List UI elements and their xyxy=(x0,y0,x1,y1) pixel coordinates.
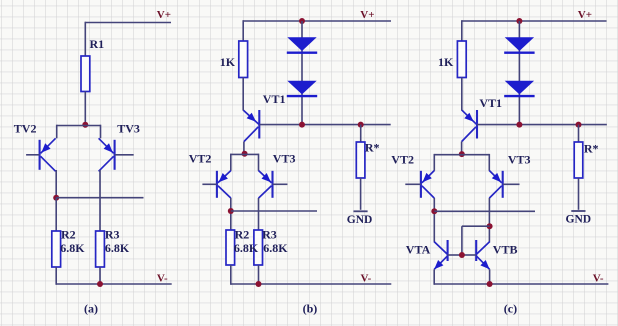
wire pair top horizontal (c) xyxy=(434,154,489,156)
transistor VT1 (b) collector xyxy=(244,127,258,142)
diode D2 (b) xyxy=(287,81,316,95)
transistor VT1 (c) emitter arrow (PNP) xyxy=(464,113,473,122)
transistor VTB base lead xyxy=(462,254,476,256)
transistor TV3 base lead xyxy=(115,154,134,156)
svg-text:GND: GND xyxy=(566,214,592,226)
wire TV2 emitter vertical xyxy=(56,125,58,139)
node: TV2 collector to output wire xyxy=(53,195,59,201)
wire R2 bottom to V- rail xyxy=(55,267,57,285)
transistor VT3c emitter arrow (PNP) xyxy=(492,173,501,182)
node: VT1 collector to pair (c) xyxy=(459,151,465,157)
resistor R3 xyxy=(96,231,105,267)
transistor TV2 base lead xyxy=(26,154,39,156)
transistor VT3b collector xyxy=(259,186,272,198)
wire VT2 collector vertical down to mirror (c) xyxy=(433,198,435,242)
wire R3 bottom to V- rail (b) xyxy=(258,265,260,284)
transistor VT1 (c) emitter xyxy=(462,110,477,124)
wire output (b) xyxy=(231,210,317,212)
transistor VT1 (b) bar xyxy=(258,110,260,139)
diode D1 (c) xyxy=(505,37,534,51)
node: VTB emitter at V- rail (c) xyxy=(487,281,493,287)
node: VT2 collector to output (b) xyxy=(228,208,234,214)
wire TV2 collector vertical xyxy=(55,170,57,198)
transistor TV2 emitter arrow (PNP) xyxy=(41,143,50,152)
transistor VT2c bar xyxy=(420,171,422,198)
wire diode chain vertical (b) xyxy=(301,21,303,125)
node: base wire to R* (c) xyxy=(576,122,582,128)
transistor TV3 collector xyxy=(99,156,114,171)
wire V- rail (c) xyxy=(434,283,608,285)
wire VT3 collector vertical (b) xyxy=(258,198,260,230)
svg-text:V+: V+ xyxy=(360,9,374,21)
wire VT3 emitter vertical (c) xyxy=(488,154,490,171)
wire VT1 collector vertical (b) xyxy=(243,142,245,155)
svg-text:(b): (b) xyxy=(303,302,318,316)
wire R2 bottom to V- rail (b) xyxy=(230,265,232,285)
wire VT1 base to R* line (b) xyxy=(259,124,390,126)
wire V- rail (a) xyxy=(56,283,172,285)
wire VT1 base to R* line (c) xyxy=(477,124,607,126)
transistor VTA emitter xyxy=(434,256,447,269)
wire output (c) xyxy=(434,210,535,212)
transistor VTB emitter arrow (NPN) xyxy=(480,260,489,269)
transistor VTB collector xyxy=(477,242,490,255)
node: diode chain to base wire (c) xyxy=(516,122,522,128)
node: base wire to R* (b) xyxy=(358,122,364,128)
wire output (a) xyxy=(56,197,143,199)
resistor R2 (b) xyxy=(226,230,235,265)
transistor VT3c bar xyxy=(502,171,504,198)
transistor TV2 emitter xyxy=(41,138,56,153)
circuit (a) V+ rail wire xyxy=(85,22,171,24)
transistor VTB bar xyxy=(475,240,477,261)
transistor TV3 emitter arrow (PNP) xyxy=(104,143,113,152)
wire R1 top xyxy=(84,22,86,56)
transistor VT1 (c) collector xyxy=(462,127,476,142)
svg-text:R2: R2 xyxy=(235,228,250,242)
svg-text:VT1: VT1 xyxy=(479,96,502,110)
svg-text:VTA: VTA xyxy=(406,243,431,257)
svg-text:1K: 1K xyxy=(438,55,454,69)
wire VT3 emitter vertical (b) xyxy=(258,154,260,171)
transistor VT2c collector xyxy=(422,186,434,198)
diode D2 (c) xyxy=(505,81,534,95)
transistor VT2c emitter xyxy=(422,171,434,183)
wire R* bottom (b) xyxy=(360,178,362,210)
svg-text:VTB: VTB xyxy=(493,243,518,257)
transistor VT3c emitter xyxy=(489,171,501,183)
svg-text:TV3: TV3 xyxy=(117,121,140,135)
node: diode chain to base wire (b) xyxy=(299,122,305,128)
circuit (c) V+ rail wire xyxy=(462,20,607,22)
wire mirror base tie vertical (c) xyxy=(461,226,463,255)
svg-text:R*: R* xyxy=(365,140,380,154)
svg-text:(a): (a) xyxy=(84,302,98,316)
wire diode chain vertical (c) xyxy=(518,21,520,125)
transistor VTA collector xyxy=(434,242,447,255)
wire 1K top (b) xyxy=(242,20,244,41)
resistor 1K (c) xyxy=(457,41,466,78)
transistor VT2c base lead xyxy=(405,183,421,185)
node: R1 to diff pair junction xyxy=(82,122,88,128)
wire R* top (b) xyxy=(360,125,362,142)
resistor R1 xyxy=(81,56,90,92)
transistor VT3c base lead xyxy=(503,183,520,185)
transistor VTB emitter xyxy=(477,256,490,269)
wire R* bottom (c) xyxy=(578,178,580,210)
resistor R3 (b) xyxy=(254,230,263,265)
resistor 1K (b) xyxy=(239,41,248,78)
resistor R2 xyxy=(52,231,61,267)
svg-text:R2: R2 xyxy=(61,227,76,241)
ground bar (c) xyxy=(571,210,585,212)
svg-text:TV2: TV2 xyxy=(14,121,37,135)
wire VT2 collector vertical (b) xyxy=(230,198,232,230)
transistor VTA bar xyxy=(447,240,449,261)
resistor R* (c) xyxy=(574,142,583,178)
wire pair top horizontal (b) xyxy=(231,153,259,155)
svg-text:6.8K: 6.8K xyxy=(60,241,85,255)
wire 1K bottom (b) xyxy=(242,78,244,111)
wire R3 bottom to V- rail xyxy=(99,267,101,284)
transistor VT2c emitter arrow (PNP) xyxy=(423,173,432,182)
transistor VT3c collector xyxy=(489,186,501,198)
node: VT1 collector to pair (b) xyxy=(242,151,248,157)
transistor VT2b base lead xyxy=(202,183,217,185)
svg-text:(c): (c) xyxy=(504,302,517,316)
svg-text:6.8K: 6.8K xyxy=(263,241,288,255)
svg-text:R*: R* xyxy=(584,142,599,156)
node: R3 at V- rail xyxy=(97,281,103,287)
svg-text:1K: 1K xyxy=(220,55,236,69)
wire R1 bottom xyxy=(84,92,86,126)
node: VT2 collector to output (c) xyxy=(431,208,437,214)
svg-text:VT3: VT3 xyxy=(273,151,296,165)
wire VTB emitter vertical (c) xyxy=(489,269,491,284)
wire V- rail (b) xyxy=(231,283,391,285)
transistor VT1 (b) emitter arrow (PNP) xyxy=(247,113,256,122)
wire pair top horizontal (a) xyxy=(57,125,101,127)
transistor VT1 (b) emitter xyxy=(243,110,258,124)
transistor TV2 bar xyxy=(39,140,41,170)
node: R3 at V- rail (b) xyxy=(256,281,262,287)
node: VTB collector tie (c) xyxy=(487,223,493,229)
transistor VTA emitter arrow (NPN) xyxy=(434,260,443,269)
wire R2 top xyxy=(55,198,57,231)
node: V+ rail to diode chain (b) xyxy=(299,18,305,24)
transistor VT1 (c) bar xyxy=(476,110,478,139)
wire VT2 emitter vertical (b) xyxy=(230,154,232,171)
ground bar (b) xyxy=(353,210,367,212)
wire TV3 emitter vertical xyxy=(100,125,102,139)
svg-text:V+: V+ xyxy=(578,9,592,21)
transistor VT3b bar xyxy=(271,171,273,198)
transistor VT3b emitter arrow (PNP) xyxy=(262,173,271,182)
svg-text:6.8K: 6.8K xyxy=(234,241,259,255)
resistor R* (b) xyxy=(356,142,365,178)
wire 1K top (c) xyxy=(461,20,463,41)
svg-text:6.8K: 6.8K xyxy=(105,241,130,255)
wire VT1 collector vertical (c) xyxy=(461,142,463,155)
svg-text:V-: V- xyxy=(157,272,168,284)
wire mirror base tie horizontal (c) xyxy=(462,225,490,227)
wire VT2 emitter vertical (c) xyxy=(433,154,435,171)
svg-text:V-: V- xyxy=(361,272,372,284)
wire VTA emitter vertical (c) xyxy=(433,269,435,285)
transistor VT2b collector xyxy=(218,186,231,198)
transistor VT3b emitter xyxy=(259,171,272,183)
svg-text:R1: R1 xyxy=(90,37,105,51)
transistor VT2b emitter xyxy=(218,171,231,183)
transistor TV3 emitter xyxy=(99,138,114,153)
wire R* top (c) xyxy=(578,125,580,142)
transistor VT2b emitter arrow (PNP) xyxy=(219,173,228,182)
svg-text:V+: V+ xyxy=(157,9,171,21)
node: V+ rail to diode chain (c) xyxy=(516,18,522,24)
svg-text:R3: R3 xyxy=(262,228,277,242)
transistor VT2b bar xyxy=(216,171,218,198)
circuit (b) V+ rail wire xyxy=(243,20,391,22)
wire VT3 collector vertical down to mirror (c) xyxy=(488,198,490,242)
node: VTA/VTB bases junction (c) xyxy=(459,252,465,258)
transistor VT3b base lead xyxy=(273,183,288,185)
transistor TV2 collector xyxy=(41,156,56,171)
svg-text:VT1: VT1 xyxy=(263,92,286,106)
svg-text:GND: GND xyxy=(347,214,373,226)
svg-text:VT2: VT2 xyxy=(189,151,212,165)
svg-text:VT3: VT3 xyxy=(508,153,531,167)
wire TV3 collector vertical down to R3 xyxy=(99,170,101,231)
svg-text:VT2: VT2 xyxy=(391,153,414,167)
wire 1K bottom (c) xyxy=(461,78,463,111)
transistor VTA base lead xyxy=(448,254,462,256)
diode D1 (b) xyxy=(287,37,316,51)
svg-text:R3: R3 xyxy=(105,227,120,241)
transistor TV3 bar xyxy=(114,140,116,170)
svg-text:V-: V- xyxy=(593,272,604,284)
